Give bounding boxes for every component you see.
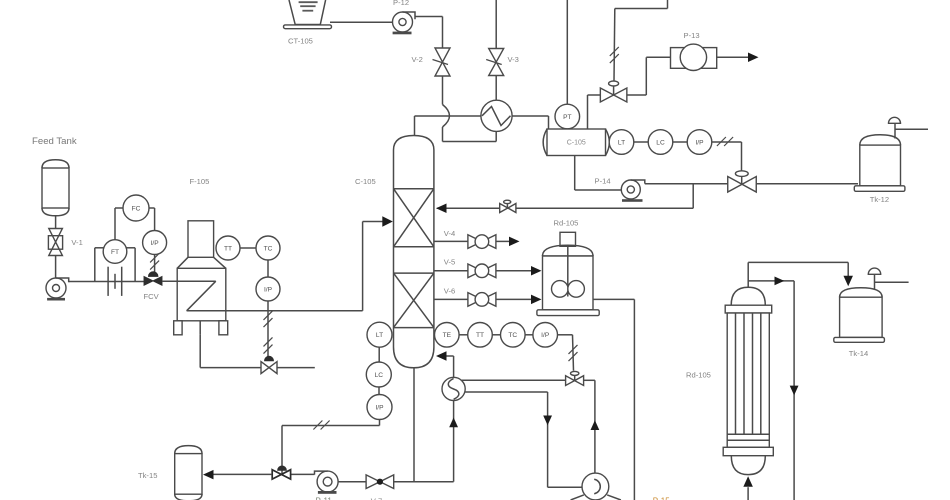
wire LC-I/P (column) xyxy=(378,387,380,395)
wire reflux line xyxy=(500,207,693,209)
wire furnace bottom xyxy=(199,321,201,335)
instrument TE xyxy=(435,323,460,348)
wire reboiler liquid feed xyxy=(453,401,455,482)
wire column top nozzle xyxy=(414,116,416,136)
svg-text:V-5: V-5 xyxy=(444,258,455,267)
wire PT stem xyxy=(566,0,568,104)
wire TE-TT xyxy=(459,334,468,336)
signal I/P to fuel valve xyxy=(267,301,269,357)
svg-text:V-6: V-6 xyxy=(444,287,455,296)
svg-text:Tk-12: Tk-12 xyxy=(870,195,889,204)
svg-text:Rd-105: Rd-105 xyxy=(686,371,711,380)
arrow into Tk-14 xyxy=(843,276,853,287)
svg-text:LC: LC xyxy=(375,372,384,379)
wire P-12 discharge xyxy=(415,16,443,18)
tank Tk-12 xyxy=(860,135,901,145)
signal I/P to valve xyxy=(712,141,742,143)
column C-105 vessel xyxy=(394,136,434,368)
arrow branch right xyxy=(775,277,785,286)
control valve bottoms xyxy=(281,466,283,474)
wire CT-105 to P-12 xyxy=(330,21,393,23)
valve V-4 xyxy=(468,235,496,249)
instrument I/P (column) xyxy=(367,395,392,420)
wire TC-I/P xyxy=(525,334,533,336)
signal to vapor valve xyxy=(667,0,669,9)
svg-text:TC: TC xyxy=(264,245,273,252)
wire feed-tank to V-1 xyxy=(55,216,57,229)
wire reflux branch xyxy=(692,184,694,209)
feed arrow into column xyxy=(382,216,393,227)
arrow reboiler return xyxy=(436,351,447,361)
wire V-3 top xyxy=(495,0,497,49)
valve reboiler steam xyxy=(571,371,579,375)
instrument LC (column) xyxy=(366,362,391,387)
valve V-6 xyxy=(468,293,496,307)
wire valve to Tk-12 xyxy=(756,183,858,185)
signal I/P to reboiler valve xyxy=(558,334,573,336)
reactor Rd-105 vessel xyxy=(560,232,576,246)
furnace coil xyxy=(162,280,216,282)
svg-text:C-105: C-105 xyxy=(567,140,586,147)
svg-text:FT: FT xyxy=(111,249,119,256)
svg-text:I/P: I/P xyxy=(151,240,160,247)
control valve vapor xyxy=(609,81,619,86)
wire LT-LC (column) xyxy=(378,347,380,362)
instrument I/P (furnace) xyxy=(256,277,280,301)
wire V-5 xyxy=(434,270,468,272)
svg-text:I/P: I/P xyxy=(695,139,704,146)
valve reflux xyxy=(504,200,511,203)
wire TC to I/P xyxy=(267,260,269,277)
instrument TC (furnace) xyxy=(256,236,280,260)
svg-text:CT-105: CT-105 xyxy=(288,37,313,46)
svg-text:P-15: P-15 xyxy=(653,497,670,500)
arrow V-6 xyxy=(531,295,542,305)
pump P-12 xyxy=(393,12,413,32)
wire to Tk-15 xyxy=(213,473,272,475)
pump P-14 xyxy=(621,180,640,199)
wire reboiler return xyxy=(438,355,454,357)
wire furnace outlet to column feed xyxy=(226,310,363,312)
arrow into Tk-15 xyxy=(203,470,214,480)
instrument LT (drum) xyxy=(609,130,634,155)
wire reboiler hot out xyxy=(465,391,547,393)
arrow blowdown down xyxy=(790,386,799,396)
svg-text:F-105: F-105 xyxy=(190,177,210,186)
reactor agitator xyxy=(567,246,569,296)
svg-text:TT: TT xyxy=(224,245,232,252)
wire FT to FC xyxy=(114,208,116,240)
tank Tk-15 xyxy=(175,446,202,454)
svg-text:Rd-105: Rd-105 xyxy=(554,219,579,228)
wire LC-I/P xyxy=(673,141,687,143)
control valve to Tk-12 xyxy=(735,171,748,177)
arrow into Rd-105 bottom xyxy=(743,476,753,487)
valve V-7 xyxy=(366,475,394,489)
furnace F-105 body xyxy=(177,268,226,321)
svg-text:LC: LC xyxy=(656,139,665,146)
svg-text:Tk-15: Tk-15 xyxy=(138,471,157,480)
arrow V-5 xyxy=(531,266,542,276)
pump P-15 xyxy=(582,473,609,500)
vent Tk-14 xyxy=(874,274,876,290)
orifice flange taps xyxy=(94,248,96,282)
instrument I/P (reboiler) xyxy=(533,323,558,348)
svg-text:LT: LT xyxy=(618,139,625,146)
wire V-3 to condenser xyxy=(495,76,497,101)
signal I/P to FCV xyxy=(154,255,156,274)
wire feed pump to FCV xyxy=(69,281,144,283)
svg-text:V-3: V-3 xyxy=(508,55,519,64)
valve V-3 xyxy=(489,49,504,76)
compressor P-13 xyxy=(671,48,717,69)
wire P-14 to valve xyxy=(645,183,728,185)
heat exchanger E-1 condenser xyxy=(481,100,512,131)
svg-text:I/P: I/P xyxy=(375,404,384,411)
instrument I/P (drum) xyxy=(687,130,712,155)
instrument I/P (flow) xyxy=(143,231,167,255)
arrow up from P-15 xyxy=(591,420,600,430)
furnace F-105 stack xyxy=(188,221,214,257)
svg-text:I/P: I/P xyxy=(264,286,273,293)
instrument FT xyxy=(103,240,127,264)
svg-text:Feed Tank: Feed Tank xyxy=(32,136,77,147)
instrument LC (drum) xyxy=(648,130,673,155)
svg-text:FCV: FCV xyxy=(144,292,160,301)
tank Feed Tank xyxy=(42,160,69,168)
pump P-10 feed pump xyxy=(46,278,66,298)
svg-text:P-12: P-12 xyxy=(393,0,409,7)
valve V-1 xyxy=(49,229,63,256)
tank Tk-14 xyxy=(840,288,883,297)
vessel C-105 reflux drum xyxy=(547,129,606,156)
wire V-6 xyxy=(434,298,468,300)
reactor column Rd-105 xyxy=(731,287,765,305)
svg-text:TC: TC xyxy=(508,332,517,339)
svg-text:TE: TE xyxy=(443,332,452,339)
arrow P-13 discharge xyxy=(748,53,759,63)
svg-text:I/P: I/P xyxy=(541,332,550,339)
wire V-2 down xyxy=(442,76,444,105)
wire valve to P-11 xyxy=(290,473,315,475)
vent Tk-12 xyxy=(894,123,896,138)
wire V-1 to feed pump xyxy=(55,256,57,279)
column packing section 1 xyxy=(394,188,434,190)
wire blowdown down xyxy=(793,281,795,500)
wire bottoms header xyxy=(394,481,454,483)
wire drum vapor xyxy=(587,95,589,129)
svg-text:V-2: V-2 xyxy=(412,55,423,64)
cooling tower CT-105 xyxy=(289,0,326,25)
wire fuel line xyxy=(199,335,201,368)
furnace F-105 legs xyxy=(174,321,182,335)
heat exchanger E-2 reboiler xyxy=(442,377,465,400)
wire Rd-105 bottom feed xyxy=(747,487,749,500)
valve V-5 xyxy=(468,264,496,278)
instrument TT (column) xyxy=(468,323,493,348)
svg-text:P-13: P-13 xyxy=(684,31,700,40)
instrument TT (furnace) xyxy=(216,236,240,260)
arrow down to P-15 xyxy=(543,416,552,426)
wire column bottoms xyxy=(413,368,415,482)
instrument FC xyxy=(123,195,149,221)
svg-text:V-4: V-4 xyxy=(444,229,455,238)
instrument LT (column) xyxy=(367,322,392,347)
orifice plates xyxy=(107,267,109,296)
wire TT to TC xyxy=(240,247,256,249)
arrow reflux into column xyxy=(436,204,447,214)
wire TT-TC xyxy=(492,334,500,336)
signal I/P to bottoms valve xyxy=(379,420,381,426)
wire FC to I/P xyxy=(149,207,155,209)
arrow up into reboiler xyxy=(449,418,458,428)
wire drum outlet xyxy=(574,156,576,191)
instrument TC (column) xyxy=(501,323,526,348)
svg-text:PT: PT xyxy=(563,114,571,121)
arrow V-4 xyxy=(509,237,520,247)
wire hop over exchanger line xyxy=(443,105,450,128)
wire reactor outlet xyxy=(593,298,634,300)
pump P-11 xyxy=(317,471,338,492)
reactor column tubes xyxy=(735,313,737,434)
wire to condenser feed xyxy=(442,127,444,142)
svg-text:TT: TT xyxy=(476,332,484,339)
valve FCV xyxy=(149,272,158,277)
furnace F-105 transition xyxy=(177,257,188,268)
svg-text:V-7: V-7 xyxy=(371,497,382,500)
wire P-15 discharge xyxy=(594,380,596,473)
svg-text:P-11: P-11 xyxy=(316,497,333,500)
wire branch to blowdown xyxy=(748,280,794,282)
instrument PT xyxy=(555,104,580,129)
wire overhead line xyxy=(415,115,549,117)
valve V-2 xyxy=(435,48,450,76)
svg-text:P-14: P-14 xyxy=(595,177,611,186)
svg-text:C-105: C-105 xyxy=(355,177,376,186)
column packing section 2 xyxy=(394,272,434,274)
wire P-13 discharge xyxy=(717,56,749,58)
svg-text:Tk-14: Tk-14 xyxy=(849,349,868,358)
wire reboiler hot in xyxy=(461,379,566,381)
wire column Rd-105 overhead xyxy=(747,262,749,287)
svg-text:V-1: V-1 xyxy=(71,238,82,247)
svg-text:LT: LT xyxy=(376,332,383,339)
fuel control valve xyxy=(265,356,274,360)
wire V-4 xyxy=(434,240,468,242)
wire LT-LC xyxy=(634,141,648,143)
svg-text:FC: FC xyxy=(132,205,141,212)
